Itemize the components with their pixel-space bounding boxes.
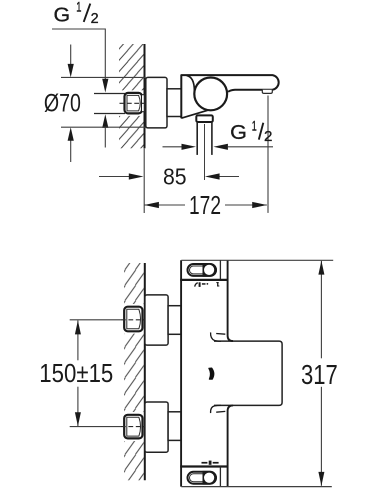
wall clearing around top nut — [122, 304, 144, 334]
body right edge upper — [228, 260, 234, 341]
svg-text:317: 317 — [301, 359, 338, 390]
dimension 172: line with arrows inside — [144, 204, 185, 206]
union nut (top drawing) — [125, 93, 143, 114]
bottom marking (mixed water symbol) — [202, 462, 208, 464]
supply pipe (top drawing) — [94, 93, 125, 95]
top cap knob dark end — [203, 263, 217, 277]
bottom cap box — [180, 465, 227, 467]
dimension Ø70: upper arrow — [70, 45, 72, 66]
svg-text:G: G — [230, 121, 247, 144]
top cap stadium slot — [188, 264, 217, 276]
svg-text:G: G — [54, 5, 71, 27]
bottom cap knob circle — [204, 473, 214, 483]
wall hatching (bottom drawing) — [124, 263, 144, 480]
nut inner face — [127, 95, 140, 111]
thermostat body (bottom drawing) — [181, 260, 228, 486]
hose outlet centerline extension — [204, 124, 206, 180]
connector between escutcheon and body — [167, 89, 181, 117]
svg-text:1: 1 — [252, 118, 257, 133]
hose outlet nut bar — [196, 115, 213, 122]
svg-text:2: 2 — [264, 128, 272, 145]
cartridge cap circle — [194, 78, 227, 111]
pipe centerline dash-dot — [120, 102, 146, 104]
aerator nub under spout — [262, 90, 272, 94]
connector top union — [168, 306, 181, 335]
connector bottom union — [168, 412, 181, 441]
label G1/2 (top) leader underline — [52, 29, 105, 80]
nipple between nut and wall — [142, 95, 144, 112]
fillet from body top into cap circle — [187, 76, 195, 91]
dimension Ø70: bottom extension line — [61, 126, 146, 128]
faucet body with spout (top drawing) — [181, 75, 278, 118]
dimension Ø70: lower arrow — [70, 140, 72, 162]
wall line extension down for dims 85/172 — [143, 148, 145, 213]
wall surface line (top drawing) — [144, 44, 146, 148]
top cap knob circle — [204, 265, 214, 275]
dimension Ø70: top extension line — [61, 76, 146, 78]
bottom cap stadium slot — [188, 472, 217, 484]
body left edge — [180, 260, 182, 486]
label G1/2 (top) down arrow at pipe top — [102, 79, 108, 93]
dimension 317 vertical line with arrows — [320, 261, 322, 359]
belt (wide middle section) — [214, 341, 282, 405]
wall surface line (bottom drawing) — [144, 263, 146, 480]
escutcheon (top drawing) — [146, 77, 167, 128]
handle mark (dark D) — [209, 368, 214, 379]
svg-text:Ø70: Ø70 — [44, 90, 81, 118]
label G1/2 (top) up arrow below pipe — [104, 127, 106, 148]
svg-text:150±15: 150±15 — [39, 358, 113, 388]
wall hatching (top drawing) — [119, 44, 144, 148]
label G1/2 (hose) arrows — [163, 146, 183, 148]
dimension 85: left arrow (outside) — [99, 176, 130, 178]
extension line from aerator down — [267, 96, 269, 213]
wall clearing around union nut — [118, 90, 144, 116]
bottom junction hook — [211, 405, 221, 413]
bottom union centerline — [70, 426, 121, 428]
union nut bottom (bottom drawing) — [124, 415, 142, 439]
union nut top (bottom drawing) — [124, 307, 142, 332]
svg-text:85: 85 — [163, 164, 187, 190]
svg-text:172: 172 — [189, 190, 221, 220]
escutcheon bottom union (bottom drawing) — [145, 402, 168, 452]
top junction hook — [211, 332, 221, 341]
hose outlet pipe — [196, 122, 198, 155]
top union centerline — [70, 319, 121, 321]
wall clearing around bottom nut — [122, 412, 144, 441]
top cap box — [181, 259, 333, 261]
body right edge lower — [228, 405, 234, 486]
dimension 150±15 vertical line with arrows — [77, 321, 79, 361]
escutcheon top union (bottom drawing) — [145, 295, 168, 345]
bottom cap knob dark end — [203, 471, 217, 485]
svg-text:2: 2 — [91, 10, 99, 27]
dimension 85: right arrow (outside) — [219, 176, 239, 178]
svg-text:1: 1 — [76, 0, 81, 14]
economy button markings under top cap — [195, 283, 198, 287]
